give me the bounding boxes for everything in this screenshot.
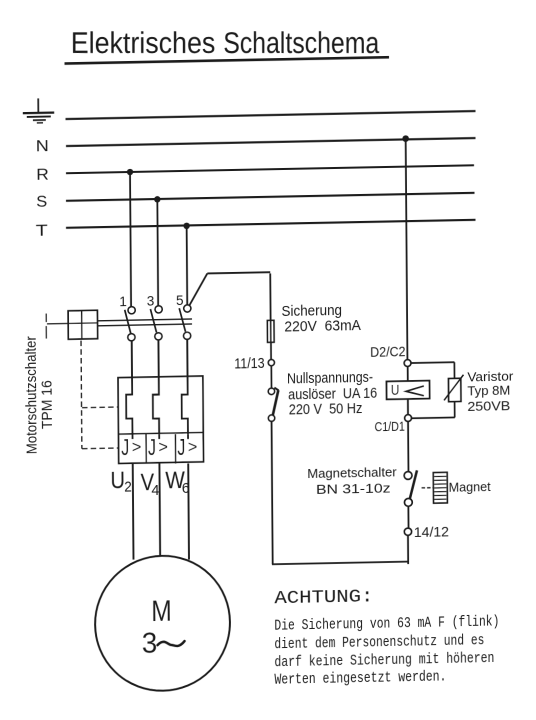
svg-text:Magnetschalter: Magnetschalter bbox=[307, 464, 397, 481]
svg-text:S: S bbox=[36, 194, 47, 211]
svg-text:3: 3 bbox=[147, 293, 155, 308]
svg-text:TPM 16: TPM 16 bbox=[39, 380, 56, 429]
svg-text:14/12: 14/12 bbox=[414, 523, 450, 540]
svg-text:250VB: 250VB bbox=[467, 398, 510, 414]
svg-text:Nullspannungs-: Nullspannungs- bbox=[287, 370, 373, 388]
svg-text:6: 6 bbox=[182, 480, 190, 497]
svg-text:Werten eingesetzt werden.: Werten eingesetzt werden. bbox=[274, 668, 446, 689]
svg-text:M: M bbox=[151, 595, 172, 628]
svg-text:J: J bbox=[148, 434, 156, 460]
svg-text:U: U bbox=[391, 383, 400, 399]
svg-text:220V 63mA: 220V 63mA bbox=[284, 318, 361, 335]
svg-text:11/13: 11/13 bbox=[234, 356, 264, 373]
svg-text:ACHTUNG:: ACHTUNG: bbox=[274, 586, 373, 609]
svg-text:C1/D1: C1/D1 bbox=[374, 419, 404, 435]
svg-text:Typ 8M: Typ 8M bbox=[467, 383, 510, 399]
svg-text:Sicherung: Sicherung bbox=[281, 302, 342, 320]
svg-text:1: 1 bbox=[119, 294, 127, 309]
svg-text:3: 3 bbox=[142, 628, 158, 660]
svg-text:Magnet: Magnet bbox=[449, 480, 492, 495]
svg-text:2: 2 bbox=[124, 478, 132, 495]
svg-text:>: > bbox=[188, 437, 198, 456]
svg-text:4: 4 bbox=[151, 482, 159, 499]
svg-text:Elektrisches: Elektrisches bbox=[71, 27, 216, 60]
svg-text:>: > bbox=[132, 437, 142, 456]
svg-text:J: J bbox=[177, 434, 185, 460]
svg-text:R: R bbox=[36, 167, 49, 184]
svg-text:>: > bbox=[158, 437, 168, 456]
svg-text:N: N bbox=[36, 138, 49, 155]
svg-text:U: U bbox=[110, 467, 125, 494]
svg-text:Schaltschema: Schaltschema bbox=[223, 27, 379, 60]
svg-text:J: J bbox=[121, 434, 129, 460]
svg-text:D2/C2: D2/C2 bbox=[370, 344, 405, 360]
svg-text:5: 5 bbox=[176, 293, 184, 308]
svg-text:T: T bbox=[36, 223, 48, 240]
svg-text:BN 31-10z: BN 31-10z bbox=[316, 480, 391, 496]
svg-text:220 V 50 Hz: 220 V 50 Hz bbox=[289, 401, 363, 418]
